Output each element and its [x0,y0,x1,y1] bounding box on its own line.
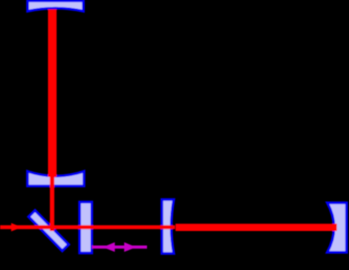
mirror M1 (top cavity mirror, concave down) [28,1,84,11]
input beam arrowhead [11,223,22,231]
scan arrow line (magenta) [92,246,147,249]
mirror M2 (lower cavity mirror, concave up) [28,171,85,186]
beamsplitter BS (45-degree plate) [29,210,69,250]
lens L1 (plano-concave, concave right) [162,200,174,254]
beam: horizontal input beam (thin) [0,225,175,229]
beam: vertical transmitted beam (thin) [50,176,54,231]
scan arrowhead left [103,242,115,252]
mirror M3 (right cavity mirror, concave left) [327,203,346,253]
beam: vertical cavity beam (thick) [48,9,57,177]
scan arrowhead right [124,242,136,252]
beam: horizontal cavity beam (thick) [176,224,337,231]
plate (phase modulator / etalon) [80,202,92,253]
